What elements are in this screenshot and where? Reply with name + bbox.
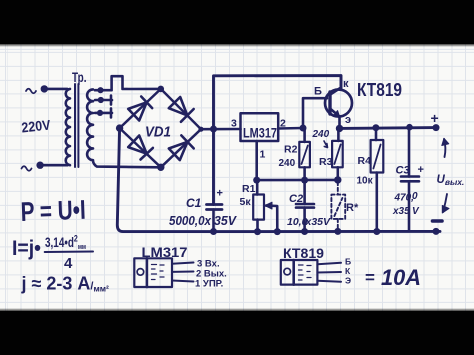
svg-text:R2: R2 xyxy=(284,144,298,156)
svg-text:470,: 470, xyxy=(394,193,414,204)
svg-text:э: э xyxy=(345,114,351,126)
svg-text:P = U•I: P = U•I xyxy=(20,195,86,227)
svg-text:КТ819: КТ819 xyxy=(357,80,402,100)
svg-text:х35: х35 xyxy=(392,206,410,217)
svg-text:R1: R1 xyxy=(242,183,256,195)
svg-text:+: + xyxy=(217,188,223,200)
svg-text:Б: Б xyxy=(345,257,351,267)
svg-text:КТ819: КТ819 xyxy=(283,246,324,261)
svg-text:х35V: х35V xyxy=(305,216,332,228)
svg-text:4: 4 xyxy=(64,255,73,272)
svg-text:2: 2 xyxy=(280,118,286,130)
svg-text:+: + xyxy=(418,164,424,176)
svg-text:5к: 5к xyxy=(240,196,252,208)
svg-text:С3: С3 xyxy=(396,165,410,177)
svg-text:Uвых.: Uвых. xyxy=(437,174,465,187)
svg-text:C2: C2 xyxy=(289,193,303,205)
svg-text:Тр.: Тр. xyxy=(72,69,87,85)
svg-text:3,14•d2мм: 3,14•d2мм xyxy=(45,234,86,252)
svg-text:V: V xyxy=(412,206,420,217)
svg-text:LM317: LM317 xyxy=(142,244,188,260)
svg-text:35V: 35V xyxy=(214,213,237,228)
svg-text:+: + xyxy=(431,110,439,126)
svg-text:240: 240 xyxy=(279,158,296,169)
svg-text:R*: R* xyxy=(346,202,359,214)
svg-text:LM317: LM317 xyxy=(243,125,277,141)
svg-text:3: 3 xyxy=(231,118,237,130)
svg-text:1 УПР.: 1 УПР. xyxy=(195,279,223,290)
svg-text:240: 240 xyxy=(312,129,330,140)
svg-text:I=j•: I=j• xyxy=(12,236,41,260)
svg-text:VD1: VD1 xyxy=(145,124,171,141)
svg-text:к: к xyxy=(343,78,349,90)
svg-text:=: = xyxy=(365,268,375,287)
svg-text:C1: C1 xyxy=(186,196,202,210)
svg-text:10к: 10к xyxy=(357,176,374,187)
svg-text:10А: 10А xyxy=(381,265,421,290)
svg-text:К: К xyxy=(345,266,351,276)
svg-text:R3: R3 xyxy=(319,156,333,168)
svg-text:5000,0х: 5000,0х xyxy=(169,213,212,228)
svg-text:1: 1 xyxy=(260,149,266,161)
svg-text:R4: R4 xyxy=(358,155,372,167)
svg-text:Б: Б xyxy=(314,86,322,98)
svg-text:j ≈ 2-3 А/мм²: j ≈ 2-3 А/мм² xyxy=(21,274,110,294)
svg-text:10,0: 10,0 xyxy=(287,216,308,228)
svg-text:0: 0 xyxy=(412,191,418,202)
svg-text:220V: 220V xyxy=(21,116,52,135)
svg-text:Э: Э xyxy=(345,276,351,286)
